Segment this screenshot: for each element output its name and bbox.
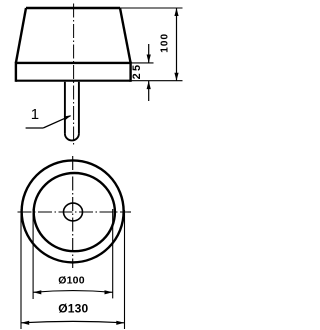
svg-text:Ø130: Ø130 bbox=[58, 302, 88, 316]
extension line from top edge for dim 100 bbox=[120, 7, 183, 9]
extension line from flange bottom for dims 100 and 25 bbox=[131, 80, 183, 82]
dimension line D100 bbox=[33, 291, 113, 293]
extension line right for dim D100 bbox=[112, 209, 114, 298]
centerline vertical (side view) bbox=[73, 4, 75, 146]
extension line right for dim D130 bbox=[124, 210, 126, 329]
stem left edge bbox=[64, 82, 66, 134]
dimension line 100 bbox=[176, 8, 178, 81]
flange right edge bbox=[129, 62, 131, 82]
centerline vertical (top view) bbox=[72, 156, 74, 268]
arrowhead of dim 25 pointing down bbox=[147, 55, 151, 63]
top view stem circle bbox=[64, 203, 83, 221]
extension line from flange top for dim 25 bbox=[131, 62, 154, 64]
arrowhead top of dim 100 bbox=[174, 8, 178, 16]
plug body right slant edge bbox=[120, 8, 131, 63]
leader arrowhead bbox=[64, 115, 71, 120]
flange left edge bbox=[15, 62, 17, 82]
top view inner circle (D100) bbox=[34, 173, 115, 251]
flange bottom line bbox=[16, 80, 131, 82]
extension line left for dim D100 bbox=[32, 209, 34, 299]
top view outer circle (D130) bbox=[22, 160, 124, 262]
svg-text:1: 1 bbox=[31, 106, 39, 123]
svg-text:100: 100 bbox=[159, 33, 170, 53]
svg-text:25: 25 bbox=[131, 63, 143, 80]
plug body left slant edge bbox=[16, 8, 26, 63]
svg-text:Ø100: Ø100 bbox=[58, 275, 85, 287]
extension line left for dim D130 bbox=[20, 209, 22, 329]
dimension line 25 lower segment bbox=[148, 81, 150, 101]
stem right edge bbox=[78, 82, 80, 134]
stem rounded bottom bbox=[65, 134, 79, 141]
arrowhead of dim 25 pointing up bbox=[147, 81, 151, 89]
leader line to stem bbox=[43, 116, 70, 128]
dimension line D130 bbox=[21, 321, 125, 322]
plug body top edge (side view) bbox=[26, 7, 120, 9]
label underline bbox=[26, 127, 44, 129]
arrowhead left of dim D100 bbox=[33, 290, 41, 294]
arrowhead bottom of dim 100 bbox=[174, 73, 178, 81]
flange top line bbox=[16, 62, 131, 64]
dimension line 25 upper segment bbox=[148, 44, 150, 63]
arrowhead left of dim D130 bbox=[21, 321, 29, 325]
arrowhead right of dim D100 bbox=[105, 290, 113, 294]
centerline horizontal (top view) bbox=[18, 211, 132, 213]
arrowhead right of dim D130 bbox=[116, 321, 124, 325]
